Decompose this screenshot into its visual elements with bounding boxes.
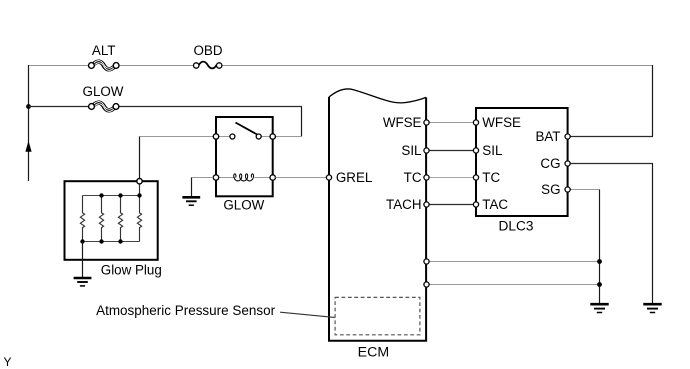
wire left vertical battery feed	[28, 65, 30, 181]
ECM pin GREL	[326, 175, 331, 180]
Glow Plug box	[65, 181, 158, 260]
glow plug resistor 2	[99, 196, 103, 242]
svg-text:SIL: SIL	[482, 143, 502, 158]
node junction lower pin 1	[597, 259, 602, 264]
svg-text:Glow Plug: Glow Plug	[101, 263, 162, 278]
ground SG	[590, 304, 608, 312]
DLC3 box	[476, 108, 568, 216]
glow plug feed from terminal	[139, 184, 141, 196]
wire ECM WFSE to DLC3	[429, 122, 473, 124]
svg-text:ALT: ALT	[92, 43, 116, 58]
fuse OBD	[193, 43, 222, 68]
svg-text:CG: CG	[540, 156, 560, 171]
ground CG	[643, 304, 661, 312]
wire ECM SIL to DLC3	[429, 150, 473, 152]
svg-text:GLOW: GLOW	[223, 197, 264, 212]
svg-text:GREL: GREL	[336, 170, 372, 185]
ECM pin TC	[424, 175, 429, 180]
relay GLOW box	[216, 117, 273, 196]
DLC3 pin TC	[473, 175, 478, 180]
wire relay switch output to glow plug	[140, 137, 214, 179]
svg-text:TC: TC	[482, 170, 500, 185]
wire relay coil to GREL	[275, 177, 326, 179]
ground glow plug	[74, 278, 92, 286]
wire DLC3 BAT to top rail	[570, 65, 653, 137]
svg-text:ECM: ECM	[358, 345, 390, 360]
ECM pin WFSE	[424, 120, 429, 125]
arrow up on battery feed	[25, 141, 31, 152]
fuse ALT	[89, 43, 120, 70]
wire relay internal coil row	[218, 177, 236, 179]
DLC3 pin SG	[565, 187, 570, 192]
wire GLOW rail	[29, 106, 303, 108]
wire DLC3 CG to right ground	[570, 164, 653, 304]
svg-text:TC: TC	[404, 170, 422, 185]
DLC3 pin CG	[565, 161, 570, 166]
node junction lower pin 2	[597, 282, 602, 287]
ECM pin SIL	[424, 148, 429, 153]
DLC3 pin WFSE	[473, 120, 478, 125]
svg-text:GLOW: GLOW	[83, 84, 124, 99]
node junction at GLOW rail	[26, 104, 31, 109]
svg-text:TAC: TAC	[482, 197, 508, 212]
glow plug resistor 1	[80, 196, 84, 242]
wire ECM lower pin 2	[429, 284, 599, 286]
glow plug bottom bus	[83, 241, 140, 243]
ECM lower terminal 2	[424, 282, 429, 287]
svg-text:Atmospheric Pressure Sensor: Atmospheric Pressure Sensor	[96, 303, 276, 318]
glow plug bottom bus junction dots	[80, 239, 84, 243]
relay terminals	[213, 134, 218, 139]
ECM lower terminal 1	[424, 259, 429, 264]
wire ECM lower pin 1	[429, 261, 599, 263]
svg-text:SIL: SIL	[401, 143, 421, 158]
DLC3 pin TAC	[473, 202, 478, 207]
DLC3 pin BAT	[565, 134, 570, 139]
wire ECM TC to DLC3	[429, 177, 473, 179]
svg-text:BAT: BAT	[535, 129, 560, 144]
wire top rail from battery feed to ALT, OBD and BAT drop	[29, 65, 654, 67]
glow plug resistor 3	[118, 196, 122, 242]
wire relay internal switch row	[218, 136, 231, 138]
DLC3 pin SIL	[473, 148, 478, 153]
relay switch contacts	[230, 134, 235, 139]
svg-text:TACH: TACH	[386, 197, 421, 212]
wire DLC3 SG down	[570, 190, 599, 304]
leader line to sensor	[280, 312, 335, 317]
wire ECM TACH to DLC3	[429, 204, 473, 206]
wire glow plug to ground	[82, 242, 84, 278]
svg-text:OBD: OBD	[193, 43, 222, 58]
relay switch blade	[236, 123, 258, 135]
relay coil	[234, 174, 254, 181]
fuse GLOW	[83, 84, 124, 112]
svg-text:Y: Y	[4, 355, 12, 369]
svg-text:DLC3: DLC3	[499, 219, 534, 234]
svg-text:WFSE: WFSE	[482, 115, 521, 130]
glow plug top bus	[83, 195, 140, 197]
ground relay coil	[182, 197, 200, 205]
ECM pin TACH	[424, 202, 429, 207]
glow plug box terminal	[137, 179, 142, 184]
svg-text:SG: SG	[541, 182, 560, 197]
glow plug top bus junction dots	[99, 193, 103, 197]
ECM box	[329, 89, 426, 341]
atmospheric pressure sensor dashed box	[335, 297, 420, 334]
svg-text:WFSE: WFSE	[383, 115, 422, 130]
glow plug resistor 4	[137, 196, 141, 242]
wire relay coil to ground	[192, 178, 214, 197]
wire GLOW rail drop to relay	[275, 107, 301, 137]
